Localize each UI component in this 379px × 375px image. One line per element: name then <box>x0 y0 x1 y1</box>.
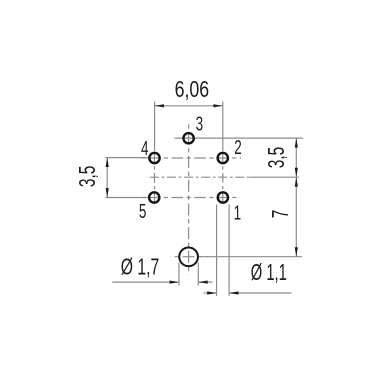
wire extension line right of 6,06 <box>222 102 224 151</box>
svg-text:7: 7 <box>267 210 293 219</box>
svg-text:4: 4 <box>141 138 149 160</box>
svg-text:1: 1 <box>234 202 242 224</box>
svg-text:3,5: 3,5 <box>74 166 100 188</box>
hole center big 1.7mm <box>179 247 198 266</box>
wire dim tail 1,1 left <box>204 292 217 294</box>
wire extension big hole row <box>199 256 302 258</box>
svg-text:6,06: 6,06 <box>175 76 210 102</box>
wire ext line right of hole1 diameter <box>228 205 230 296</box>
wire centerline big hole horizontal <box>171 256 210 258</box>
wire centerline column 2-1 <box>222 151 224 206</box>
svg-text:Ø 1,1: Ø 1,1 <box>251 259 287 285</box>
wire centerline column 4-5 <box>154 151 156 206</box>
wire dimension line 6,06 top <box>155 105 223 107</box>
node arrow down left 3,5 <box>106 188 109 197</box>
node arrow right 6,06 <box>213 104 222 107</box>
wire left extension top <box>105 157 148 159</box>
hole 5 <box>149 192 159 202</box>
wire dim leader 1,7 left <box>112 281 179 283</box>
wire left extension bottom <box>105 197 147 199</box>
wire left dimension vertical 3,5 <box>106 158 108 198</box>
wire dim leader 1,1 right <box>229 292 291 294</box>
hole 1 <box>218 192 228 202</box>
wire ext line left of big hole diameter <box>178 263 180 286</box>
hole 3 <box>183 133 193 143</box>
node arrow down right 3,5 <box>295 168 298 177</box>
wire centerline vertical main <box>188 121 190 275</box>
svg-text:Ø 1,7: Ø 1,7 <box>121 253 160 279</box>
svg-text:3,5: 3,5 <box>263 147 289 169</box>
node arrow left-pointing at 1,7 right <box>198 281 207 284</box>
svg-text:3: 3 <box>196 113 204 135</box>
node arrow up right 7 <box>295 177 298 186</box>
node arrow left-pointing at 1,1 right <box>229 291 238 294</box>
wire right dimension vertical <box>295 138 297 257</box>
wire extension line left of 6,06 <box>154 102 156 151</box>
svg-text:5: 5 <box>139 201 147 223</box>
wire extension through hole 3 row <box>175 137 304 139</box>
wire dim tail 1,7 right <box>198 281 212 283</box>
node arrow up right 3,5 <box>295 138 298 147</box>
node arrow up left 3,5 <box>106 158 109 167</box>
wire centerline horizontal center <box>147 176 252 178</box>
wire centerline row 5-1 <box>142 197 240 199</box>
wire centerline row 4-2 <box>142 157 241 159</box>
hole 4 <box>149 153 159 163</box>
node arrow left 6,06 <box>155 104 164 107</box>
wire extension center row solid part <box>250 176 299 178</box>
node arrow right-pointing at 1,7 left <box>170 281 179 284</box>
svg-text:2: 2 <box>234 137 242 159</box>
node arrow right-pointing at 1,1 left <box>207 291 216 294</box>
wire ext line right of big hole diameter <box>197 263 199 286</box>
hole 2 <box>218 153 228 163</box>
wire ext line left of hole1 diameter <box>216 205 218 296</box>
node arrow down right 7 <box>295 247 298 256</box>
